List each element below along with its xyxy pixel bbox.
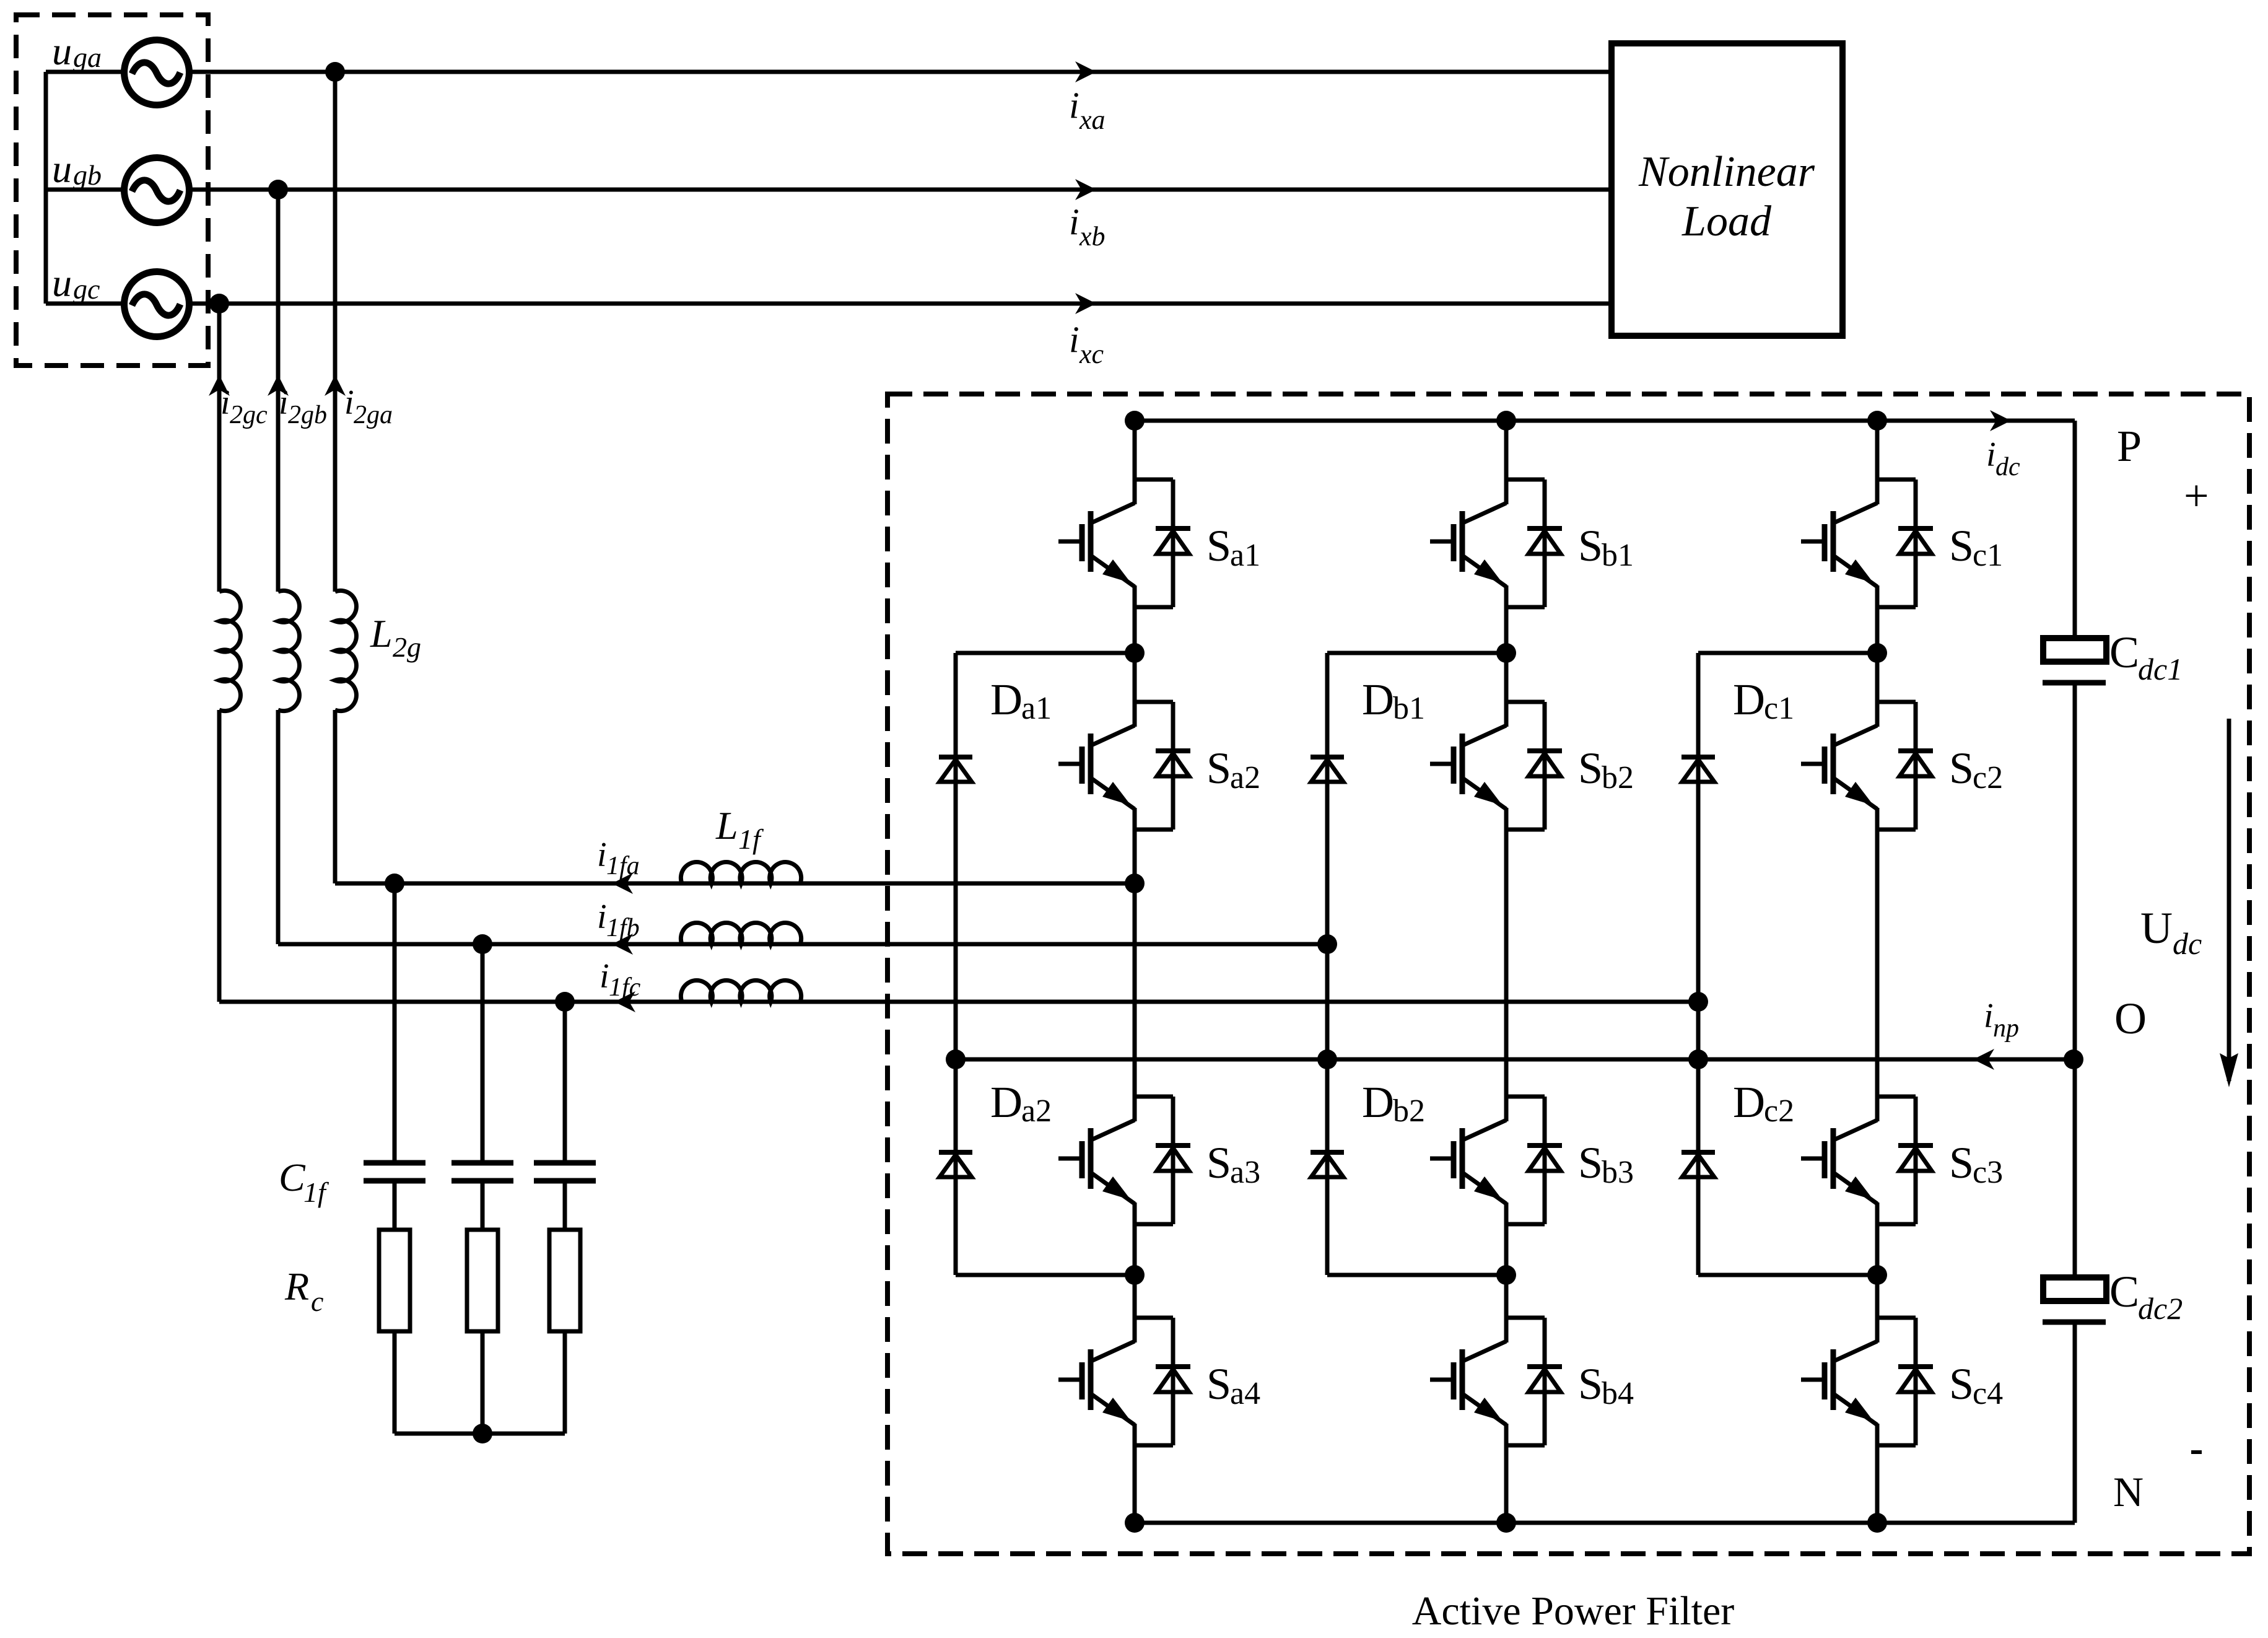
svg-text:c: c: [311, 1285, 323, 1317]
svg-text:1f: 1f: [738, 823, 764, 855]
svg-text:u: u: [52, 147, 72, 191]
svg-text:a1: a1: [1230, 538, 1260, 573]
wire O bus: [956, 1058, 2074, 1062]
node N bus leg c: [1867, 1513, 1887, 1533]
arrow i_1fb: [612, 934, 633, 955]
wire i_2gc branch vertical: [217, 304, 222, 592]
node O bus clamp a: [946, 1049, 966, 1069]
svg-text:S: S: [1578, 1359, 1603, 1409]
svg-text:2gc: 2gc: [230, 401, 268, 429]
svg-text:+: +: [2184, 471, 2209, 520]
svg-text:xa: xa: [1079, 105, 1106, 135]
svg-text:S: S: [1578, 521, 1603, 571]
svg-text:c1: c1: [1764, 691, 1794, 726]
svg-text:i: i: [279, 383, 289, 422]
transistor S_a1: [1058, 480, 1190, 607]
wire clamp branch c: [1698, 651, 1877, 655]
node phase a tap: [325, 62, 345, 82]
transistor S_b2: [1430, 702, 1562, 830]
node N bus leg b: [1496, 1513, 1516, 1533]
transistor S_c3: [1801, 1097, 1933, 1224]
transistor S_a2: [1058, 702, 1190, 830]
svg-text:i: i: [1069, 85, 1079, 126]
capacitor C_dc2: [2043, 1277, 2106, 1301]
wire P bus: [1135, 419, 2075, 423]
svg-text:1f: 1f: [303, 1176, 329, 1208]
svg-text:i: i: [220, 383, 230, 422]
label minus: [2191, 1450, 2202, 1454]
arrow U_dc: [2227, 719, 2231, 1081]
svg-text:N: N: [2113, 1468, 2144, 1515]
arrow i_np: [1973, 1049, 1994, 1070]
svg-text:b1: b1: [1602, 538, 1634, 573]
svg-text:np: np: [1993, 1014, 2019, 1043]
capacitor C1f b: [451, 1160, 513, 1166]
wire DC rail: [2073, 421, 2077, 638]
svg-text:S: S: [1949, 1138, 1974, 1188]
node i_1fc to C1f: [555, 992, 575, 1012]
arrow i_2gb: [268, 375, 289, 396]
transistor S_a4: [1058, 1318, 1190, 1445]
svg-text:c4: c4: [1973, 1376, 2003, 1411]
node phase c tap: [209, 294, 229, 313]
svg-text:Load: Load: [1681, 198, 1772, 245]
node O bus clamp b: [1317, 1049, 1337, 1069]
node i_1fb at leg b clamp: [1317, 934, 1337, 954]
svg-text:i: i: [597, 898, 607, 936]
node O bus to rail: [2064, 1049, 2083, 1069]
svg-text:S: S: [1949, 1359, 1974, 1409]
node N bus leg a: [1125, 1513, 1145, 1533]
node S_a3-S_a4: [1125, 1265, 1145, 1285]
svg-text:gb: gb: [73, 159, 102, 191]
svg-text:2ga: 2ga: [354, 401, 393, 429]
resistor Rc c: [549, 1230, 580, 1331]
capacitor C1f a: [364, 1160, 425, 1166]
svg-text:1fb: 1fb: [606, 914, 640, 942]
svg-text:a2: a2: [1021, 1093, 1052, 1129]
wire clamp branch a: [956, 651, 1135, 655]
arrow i_xa: [1075, 61, 1096, 82]
svg-text:L: L: [715, 804, 738, 847]
source dashed box: [16, 15, 208, 366]
svg-text:xc: xc: [1079, 339, 1104, 369]
svg-text:a2: a2: [1230, 760, 1260, 795]
arrow i_xb: [1075, 179, 1096, 200]
arrow i_1fc: [614, 991, 635, 1012]
diode D_b2: [1311, 1152, 1344, 1177]
svg-text:b2: b2: [1393, 1093, 1425, 1129]
inductor L2g coil a: [335, 590, 356, 711]
svg-text:i: i: [597, 836, 607, 874]
wire i_1fc line: [219, 1000, 1698, 1004]
svg-text:Nonlinear: Nonlinear: [1638, 148, 1815, 196]
transistor S_b3: [1430, 1097, 1562, 1224]
arrow i_dc: [1990, 410, 2011, 431]
transistor S_c1: [1801, 480, 1933, 607]
wire phase c line: [46, 302, 1612, 306]
capacitor C_dc1: [2043, 638, 2106, 662]
diode D_a1: [939, 757, 972, 782]
svg-text:i: i: [600, 957, 609, 996]
wire RC bottom bus: [395, 1432, 565, 1436]
wire i_1fb line: [278, 942, 1327, 947]
svg-text:D: D: [1362, 1077, 1394, 1127]
svg-text:a1: a1: [1021, 691, 1052, 726]
transistor S_c4: [1801, 1318, 1933, 1445]
resistor Rc b: [467, 1230, 498, 1331]
node S_b3-S_b4: [1496, 1265, 1516, 1285]
node i_1fb to C1f: [473, 934, 492, 954]
svg-text:O: O: [2114, 994, 2147, 1043]
svg-text:xb: xb: [1079, 221, 1106, 252]
wire i_1fa line: [335, 882, 1135, 886]
node P bus leg a: [1125, 411, 1145, 431]
diode D_a2: [939, 1152, 972, 1177]
nonlinear load box: [1612, 43, 1843, 336]
arrow i_2ga: [325, 375, 346, 396]
svg-text:2g: 2g: [393, 631, 421, 663]
svg-text:D: D: [1733, 675, 1765, 724]
svg-text:S: S: [1949, 743, 1974, 793]
AC source u_gc: [124, 272, 190, 337]
svg-text:S: S: [1206, 1359, 1231, 1409]
svg-text:R: R: [284, 1264, 309, 1308]
svg-text:L: L: [370, 611, 393, 655]
inductor L1f coil c: [681, 981, 801, 1002]
transistor S_b1: [1430, 480, 1562, 607]
wire i_2ga branch vertical: [333, 72, 338, 592]
svg-text:S: S: [1206, 1138, 1231, 1188]
node P bus leg c: [1867, 411, 1887, 431]
arrow i_1fa: [612, 873, 633, 894]
wire C1f branch a vertical: [393, 883, 397, 1163]
node phase b tap: [268, 180, 288, 199]
svg-text:b2: b2: [1602, 760, 1634, 795]
svg-text:C: C: [2109, 1267, 2139, 1316]
svg-text:u: u: [52, 29, 72, 73]
svg-text:1fc: 1fc: [609, 973, 641, 1002]
svg-text:Active Power Filter: Active Power Filter: [1412, 1588, 1735, 1634]
inductor L1f coil a: [681, 862, 801, 883]
svg-text:i: i: [1069, 201, 1079, 242]
node S_b1-S_b2: [1496, 643, 1516, 663]
svg-text:ga: ga: [73, 42, 102, 73]
svg-text:S: S: [1949, 521, 1974, 571]
node i_1fa at leg a: [1125, 874, 1145, 893]
AC source u_gb: [124, 158, 190, 223]
diode D_c1: [1681, 757, 1715, 782]
svg-text:P: P: [2117, 421, 2142, 471]
wire C1f branch c vertical: [563, 1002, 567, 1163]
capacitor C1f c: [534, 1160, 596, 1166]
node O bus clamp c: [1688, 1049, 1708, 1069]
svg-text:U: U: [2140, 903, 2173, 953]
resistor Rc a: [379, 1230, 410, 1331]
svg-text:S: S: [1578, 743, 1603, 793]
svg-text:S: S: [1206, 521, 1231, 571]
svg-text:a4: a4: [1230, 1376, 1260, 1411]
svg-text:i: i: [344, 383, 354, 422]
svg-text:C: C: [279, 1155, 306, 1199]
svg-text:c2: c2: [1973, 760, 2003, 795]
active power filter dashed box: [888, 394, 2249, 1554]
node S_a1-S_a2: [1125, 643, 1145, 663]
wire C1f branch b vertical: [481, 944, 485, 1163]
wire phase b line: [46, 188, 1612, 192]
svg-text:S: S: [1206, 743, 1231, 793]
svg-text:dc: dc: [2173, 926, 2202, 961]
arrow i_2gc: [209, 375, 230, 396]
svg-text:dc: dc: [1995, 453, 2020, 481]
svg-text:C: C: [2109, 628, 2139, 677]
wire N bus: [1135, 1521, 2075, 1525]
svg-text:a3: a3: [1230, 1155, 1260, 1190]
node S_c1-S_c2: [1867, 643, 1887, 663]
svg-text:i: i: [1984, 997, 1994, 1035]
svg-text:i: i: [1986, 436, 1996, 474]
svg-text:2gb: 2gb: [288, 401, 327, 429]
node i_1fc at leg c clamp: [1688, 992, 1708, 1012]
arrow i_xc: [1075, 293, 1096, 314]
inductor L2g coil c: [219, 590, 240, 711]
svg-text:gc: gc: [73, 273, 100, 305]
node S_c3-S_c4: [1867, 1265, 1887, 1285]
svg-text:b1: b1: [1393, 691, 1425, 726]
svg-text:D: D: [1733, 1077, 1765, 1127]
inductor L2g coil b: [278, 590, 299, 711]
transistor S_b4: [1430, 1318, 1562, 1445]
svg-text:D: D: [1362, 675, 1394, 724]
svg-text:u: u: [52, 261, 72, 305]
node RC bottom: [473, 1424, 492, 1443]
svg-text:b4: b4: [1602, 1376, 1634, 1411]
svg-text:dc2: dc2: [2138, 1291, 2183, 1326]
svg-text:c2: c2: [1764, 1093, 1794, 1129]
AC source u_ga: [124, 40, 190, 105]
diode D_b1: [1311, 757, 1344, 782]
wire i_2gb branch vertical: [276, 190, 281, 592]
leg a main vertical segments: [1133, 421, 1137, 480]
svg-text:c1: c1: [1973, 538, 2003, 573]
leg c main vertical segments: [1875, 421, 1880, 480]
node P bus leg b: [1496, 411, 1516, 431]
leg b main vertical segments: [1504, 421, 1509, 480]
wire source left bus: [44, 72, 48, 304]
node i_1fa to C1f: [385, 874, 404, 893]
wire clamp branch b: [1327, 651, 1506, 655]
svg-text:S: S: [1578, 1138, 1603, 1188]
svg-text:i: i: [1069, 319, 1079, 360]
svg-text:D: D: [990, 1077, 1023, 1127]
svg-text:1fa: 1fa: [606, 852, 640, 880]
svg-text:b3: b3: [1602, 1155, 1634, 1190]
svg-text:D: D: [990, 675, 1023, 724]
wire phase a line: [46, 70, 1612, 74]
transistor S_c2: [1801, 702, 1933, 830]
diode D_c2: [1681, 1152, 1715, 1177]
svg-text:c3: c3: [1973, 1155, 2003, 1190]
svg-text:dc1: dc1: [2138, 652, 2183, 686]
transistor S_a3: [1058, 1097, 1190, 1224]
inductor L1f coil b: [681, 923, 801, 944]
